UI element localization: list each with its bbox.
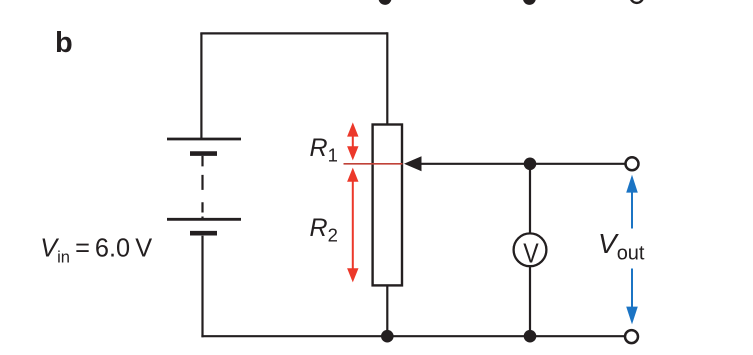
R1 extent arrow (red, double-headed)	[347, 122, 358, 160]
terminal (cropped, from figure above)	[631, 0, 644, 3]
wire: top rail to potentiometer top	[386, 32, 388, 124]
wire: battery negative to bottom rail	[201, 236, 203, 338]
output terminal (top)	[626, 157, 639, 170]
wiper arrow head	[404, 156, 422, 171]
battery cell B2 negative plate	[190, 231, 217, 236]
wire: top rail	[200, 32, 387, 34]
R2 extent arrow (red, double-headed)	[347, 168, 358, 283]
Vout arrow up (blue)	[626, 175, 638, 229]
output terminal (bottom)	[625, 330, 638, 343]
junction node (cropped, from figure above)	[523, 0, 536, 5]
wire: junction to voltmeter	[529, 164, 531, 235]
wire: voltmeter to bottom rail	[529, 267, 531, 336]
wire: potentiometer bottom to bottom rail	[386, 285, 388, 336]
svg-text:R1: R1	[310, 134, 338, 166]
label Vin = 6.0 V	[40, 234, 152, 266]
junction node (cropped, from figure above)	[379, 0, 392, 5]
svg-text:V: V	[523, 238, 539, 269]
battery cell B2 positive plate	[167, 218, 241, 221]
junction node: voltmeter / bottom rail	[524, 330, 537, 343]
red wiper position line	[344, 163, 403, 165]
potentiometer body (track of R1 + R2)	[373, 125, 402, 286]
battery cell B1 positive plate	[167, 138, 241, 141]
wire: battery positive to top rail	[200, 33, 202, 138]
svg-text:Vin = 6.0 V: Vin = 6.0 V	[40, 234, 152, 266]
svg-text:Vout: Vout	[598, 228, 645, 264]
junction node: potentiometer / bottom rail	[381, 330, 394, 343]
svg-text:R2: R2	[310, 214, 338, 246]
battery cell B1 negative plate	[190, 151, 217, 156]
junction node: wiper / voltmeter	[524, 158, 537, 171]
svg-text:b: b	[55, 27, 73, 59]
wire: bottom rail	[201, 335, 624, 337]
Vout arrow down (blue)	[626, 269, 638, 325]
voltmeter V	[514, 233, 547, 269]
wire: wiper arrow to output terminal	[420, 163, 625, 165]
wire: dashed link between cells	[201, 156, 203, 219]
